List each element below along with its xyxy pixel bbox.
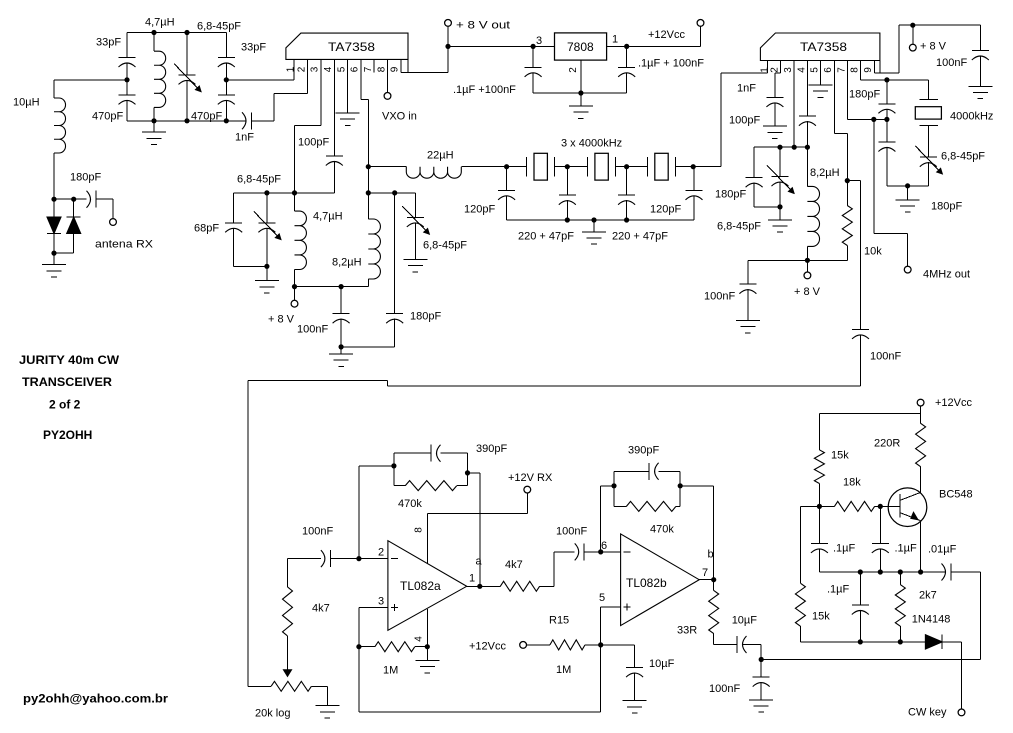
capacitor 1nF series (242, 112, 246, 129)
feedback loop b right (679, 471, 681, 506)
svg-text:470k: 470k (398, 498, 422, 510)
node tank left mid (124, 77, 129, 82)
svg-text:8: 8 (850, 67, 861, 73)
wire U2 pin4 (806, 73, 808, 116)
wire U1 pin3 (320, 73, 322, 126)
wire out a (467, 585, 480, 587)
node filter n1 (565, 164, 570, 169)
capacitor 470pF right (225, 80, 227, 95)
wire U1 pin1 (293, 73, 295, 80)
svg-text:6,8-45pF: 6,8-45pF (941, 151, 985, 163)
terminal +8V U2 (912, 25, 914, 44)
svg-text:10µH: 10µH (13, 97, 40, 109)
svg-text:180pF: 180pF (849, 89, 880, 101)
wire audio bus right (388, 385, 861, 387)
svg-text:2: 2 (568, 67, 579, 73)
wire emitter rail (819, 571, 920, 573)
svg-text:8,2µH: 8,2µH (810, 167, 840, 179)
varcap 6,8-45pF input (186, 33, 188, 75)
svg-text:R15: R15 (549, 615, 569, 627)
resistor 15k upper (818, 414, 820, 450)
resistor 33R (713, 580, 715, 591)
wire U1 tank left (234, 192, 335, 194)
capacitor 470pF left (126, 80, 128, 95)
pot wiper arrow (287, 659, 289, 670)
svg-text:8: 8 (414, 527, 425, 533)
capacitor .1uF left (818, 506, 820, 543)
wire filter bottom rail (507, 219, 694, 221)
wire 7808 out (607, 45, 627, 47)
wire tank bottom (127, 120, 247, 122)
svg-text:TA7358: TA7358 (328, 40, 375, 54)
node pin6 b (598, 549, 603, 554)
svg-text:2k7: 2k7 (919, 590, 937, 602)
wire collector (919, 467, 921, 493)
svg-text:6: 6 (350, 66, 361, 72)
svg-text:6: 6 (601, 540, 607, 552)
svg-text:1nF: 1nF (235, 132, 254, 144)
svg-text:+ 8 V: + 8 V (920, 41, 947, 53)
svg-text:7808: 7808 (567, 40, 594, 54)
crystal X2 (567, 166, 587, 168)
terminal CW key (958, 709, 965, 716)
resistor 470k b (614, 505, 626, 507)
varcap 6,8-45pF U1 right (414, 193, 416, 218)
wire U2 pin9 (874, 72, 899, 74)
svg-text:18k: 18k (843, 477, 861, 489)
terminal +12Vcc top (697, 20, 704, 27)
wire 7808 pin2 (580, 60, 582, 93)
svg-text:10k: 10k (864, 246, 882, 258)
regulator 7808 (555, 33, 607, 60)
wire U1 pin6 (360, 73, 362, 100)
svg-text:180pF: 180pF (931, 201, 962, 213)
resistor 4k7 input (287, 636, 289, 659)
svg-text:120pF: 120pF (650, 204, 681, 216)
svg-text:100pF: 100pF (298, 137, 329, 149)
wire pin5 to 10uF (601, 644, 635, 646)
svg-text:100nF: 100nF (709, 683, 740, 695)
ground tank (153, 121, 155, 132)
ground U2 pin5 (809, 84, 833, 86)
svg-text:1N4148: 1N4148 (912, 614, 951, 626)
svg-text:BC548: BC548 (939, 489, 973, 501)
inductor 8,2uH U2 (806, 147, 808, 186)
svg-text:8: 8 (376, 66, 387, 72)
svg-text:4,7µH: 4,7µH (145, 17, 175, 29)
wire pin8 node to crystal (887, 79, 928, 81)
wire to 7808 in (533, 45, 554, 47)
wire U1 pin9 (400, 72, 402, 74)
wire out b (699, 579, 714, 581)
wire U1 pin8 VXO (387, 73, 389, 93)
node filter n3 (691, 164, 696, 169)
wire U1 tank right (368, 192, 415, 194)
capacitor 180pF pin7 (886, 119, 888, 142)
wire U2 tank (754, 146, 807, 148)
svg-text:3: 3 (536, 35, 542, 47)
wire tank top (127, 32, 226, 34)
svg-text:20k log: 20k log (255, 708, 290, 720)
feedback loop a right (467, 453, 469, 485)
svg-text:TL082a: TL082a (400, 579, 441, 593)
svg-text:2 of 2: 2 of 2 (49, 398, 81, 412)
svg-text:PY2OHH: PY2OHH (43, 428, 92, 442)
svg-text:100nF: 100nF (297, 324, 328, 336)
U2 pin boxes (879, 61, 881, 74)
svg-text:VXO in: VXO in (382, 111, 417, 123)
svg-text:4k7: 4k7 (505, 559, 523, 571)
inductor 22uH (406, 167, 461, 179)
wire pot right (311, 685, 327, 687)
wire 1nF to pin2 (273, 94, 275, 121)
crystal X1 (507, 166, 527, 168)
wire to +12Vcc (627, 45, 701, 47)
svg-text:100nF: 100nF (704, 291, 735, 303)
feedback loop a left (393, 453, 395, 485)
wire 7808 gnd rail (533, 92, 627, 94)
terminal antena RX (112, 199, 114, 219)
wire bias bus (358, 647, 360, 712)
inductor 8,2uH U1 (367, 193, 369, 219)
svg-text:py2ohh@yahoo.com.br: py2ohh@yahoo.com.br (23, 692, 168, 706)
svg-text:6,8-45pF: 6,8-45pF (717, 221, 761, 233)
wire U3a pin4 (426, 609, 428, 647)
capacitor 120pF out (693, 167, 695, 191)
svg-text:10µF: 10µF (649, 658, 675, 670)
svg-text:TA7358: TA7358 (800, 40, 847, 54)
ground 100nF U2 top (968, 85, 992, 87)
svg-text:+ 8 V: + 8 V (794, 286, 821, 298)
svg-text:100nF: 100nF (556, 526, 587, 538)
capacitor 33pF left (126, 33, 128, 58)
potentiometer 20k log (271, 681, 311, 691)
wire fb to out a (468, 472, 480, 474)
svg-text:a: a (476, 556, 483, 568)
svg-text:9: 9 (390, 66, 401, 72)
terminal 4MHz out (904, 266, 911, 273)
resistor 220R (920, 414, 922, 424)
wire filter out up (693, 166, 721, 168)
wire varcap to gnd node (887, 185, 928, 187)
svg-text:100nF: 100nF (870, 351, 901, 363)
wire key rail (800, 641, 925, 643)
resistor 1M a (359, 646, 375, 648)
capacitor filter c2 (566, 167, 568, 196)
svg-text:5: 5 (599, 592, 605, 604)
wire U2 osc rail (748, 259, 847, 261)
varcap 6,8-45pF U2 tank (779, 147, 781, 176)
capacitor .01uF (921, 571, 946, 573)
terminal +12V RX (526, 493, 528, 513)
svg-text:2: 2 (296, 66, 307, 72)
diode D2 (73, 199, 75, 217)
capacitor 1nF U2 pin2 (766, 96, 783, 98)
ground 10uF bias (623, 700, 647, 702)
node tank right mid (224, 77, 229, 82)
capacitor 100nF U2 top (979, 25, 981, 50)
svg-text:1: 1 (469, 573, 475, 585)
wire sidetone long (761, 659, 981, 661)
terminal +8V U1 (294, 287, 296, 301)
svg-text:.1µF: .1µF (833, 543, 856, 555)
varcap 6,8-45pF xtal (920, 156, 937, 158)
svg-text:5: 5 (336, 66, 347, 72)
svg-text:6,8-45pF: 6,8-45pF (197, 21, 241, 33)
ground 100nF U2 osc (736, 320, 760, 322)
svg-text:4k7: 4k7 (312, 603, 330, 615)
wire base (880, 505, 899, 507)
svg-text:15k: 15k (812, 611, 830, 623)
wire 22uH to filter (461, 166, 506, 168)
svg-text:.1µF: .1µF (827, 584, 850, 596)
resistor 470k a (394, 485, 405, 487)
ground 7808 (580, 93, 582, 106)
svg-text:JURITY 40m CW: JURITY 40m CW (19, 353, 120, 367)
transistor Q1 BC548 (888, 488, 927, 527)
svg-text:390pF: 390pF (476, 443, 507, 455)
capacitor 390pF b (614, 470, 649, 472)
svg-text:180pF: 180pF (70, 172, 101, 184)
wire +8V rail U2 (899, 24, 980, 26)
svg-text:+12Vcc: +12Vcc (648, 29, 685, 41)
capacitor .1uF mid (859, 572, 861, 605)
svg-text:3: 3 (378, 596, 384, 608)
svg-text:7: 7 (363, 66, 374, 72)
capacitor 390pF a (394, 452, 431, 454)
svg-text:.1µF: .1µF (895, 543, 918, 555)
wire U2 pin7 (847, 73, 849, 119)
svg-text:3 x 4000kHz: 3 x 4000kHz (561, 138, 622, 150)
wire U1 osc rail (295, 286, 369, 288)
svg-text:4,7µH: 4,7µH (313, 211, 343, 223)
ground 100nF out (749, 699, 773, 701)
ground pot (315, 705, 339, 707)
wire U1 pin5 (347, 73, 349, 113)
wire 10k node right (847, 180, 860, 182)
wire fb to out b (680, 485, 714, 487)
capacitor 120pF in (506, 167, 508, 191)
capacitor 68pF (233, 193, 235, 223)
capacitor 180pF pin8 (886, 80, 888, 104)
svg-text:220 + 47pF: 220 + 47pF (612, 231, 668, 243)
terminal +12Vcc key (917, 399, 924, 406)
capacitor 100nF audio (852, 328, 869, 330)
U1 pin boxes (407, 59, 409, 72)
svg-text:5: 5 (809, 67, 820, 73)
wire to CW key (961, 642, 963, 709)
wire pin3 a (359, 607, 388, 609)
svg-text:+12Vcc: +12Vcc (935, 397, 972, 409)
svg-text:1nF: 1nF (737, 83, 756, 95)
capacitor .1uF 7808 out (626, 46, 628, 67)
svg-text:15k: 15k (831, 450, 849, 462)
ground filter (593, 220, 595, 232)
svg-text:4: 4 (796, 67, 807, 73)
wire pin2 to fb (358, 466, 360, 559)
ground varcap U1 right (403, 258, 427, 260)
svg-text:4000kHz: 4000kHz (950, 111, 993, 123)
svg-text:100nF: 100nF (936, 57, 967, 69)
ground U2 tank (779, 207, 781, 220)
svg-text:3: 3 (783, 67, 794, 73)
svg-text:2: 2 (378, 547, 384, 559)
svg-text:TRANSCEIVER: TRANSCEIVER (22, 375, 112, 389)
svg-text:4: 4 (414, 636, 425, 642)
wire antenna top (54, 79, 127, 81)
svg-text:470pF: 470pF (92, 111, 123, 123)
wire U2 pin2 (775, 72, 781, 74)
svg-text:7: 7 (836, 67, 847, 73)
capacitor 100nF U2 osc (747, 260, 749, 284)
diode 1N4148 (925, 635, 942, 649)
resistor 4k7 inter (500, 581, 539, 591)
svg-text:+12Vcc: +12Vcc (469, 641, 506, 653)
svg-text:33pF: 33pF (241, 42, 266, 54)
ground U3a pin4 (426, 647, 428, 661)
wire 4k7 to cap (288, 558, 321, 560)
svg-text:1: 1 (612, 34, 618, 46)
svg-text:9: 9 (863, 67, 874, 73)
capacitor 180pF antenna (87, 191, 91, 208)
svg-text:TL082b: TL082b (626, 576, 667, 590)
capacitor 10uF bias (626, 667, 643, 669)
wire pot to 4k7 (247, 380, 249, 686)
diode D1 (53, 199, 55, 217)
terminal +8V out (445, 20, 452, 27)
svg-text:8,2µH: 8,2µH (332, 256, 362, 268)
ground U1 tank (266, 266, 268, 280)
wire 8V node (448, 45, 533, 47)
wire pin5 b (601, 606, 621, 608)
svg-text:1M: 1M (383, 665, 398, 677)
wire out node (760, 645, 762, 660)
svg-text:.1µF + 100nF: .1µF + 100nF (638, 58, 704, 70)
svg-text:7: 7 (702, 567, 708, 579)
inductor L1 10uH (53, 80, 55, 98)
svg-text:120pF: 120pF (464, 204, 495, 216)
varcap 6,8-45pF U1tank (266, 193, 268, 223)
capacitor 100nF U1osc (340, 287, 342, 314)
node antenna junction (51, 197, 56, 202)
Q1 emitter arrow (911, 512, 918, 519)
capacitor filter c3 (626, 167, 628, 196)
svg-text:CW key: CW key (908, 707, 947, 719)
wire +12 key rail (819, 413, 920, 415)
capacitor 100pF U2 pin4 (799, 115, 816, 117)
wire 4k7 to cap b (540, 585, 554, 587)
svg-text:68pF: 68pF (194, 223, 219, 235)
svg-text:.01µF: .01µF (928, 544, 957, 556)
capacitor 100pF pin4 (326, 155, 343, 157)
node filter n2 (624, 164, 629, 169)
wire to 22uH (368, 166, 406, 168)
resistor R15 1M (550, 640, 585, 650)
svg-text:6,8-45pF: 6,8-45pF (423, 240, 467, 252)
svg-text:220 + 47pF: 220 + 47pF (518, 231, 574, 243)
ground U1 osc (340, 347, 342, 354)
wire diode bottoms (54, 252, 74, 254)
svg-text:6,8-45pF: 6,8-45pF (237, 174, 281, 186)
svg-text:b: b (708, 549, 714, 561)
capacitor 180pF U2 tank (753, 147, 755, 178)
wire pin6 to fb (600, 486, 602, 552)
op-amp TL082a (388, 541, 467, 631)
ground antenna (53, 253, 55, 265)
ground U2 pin2 (763, 125, 787, 127)
svg-text:220R: 220R (874, 438, 900, 450)
svg-text:1M: 1M (556, 664, 571, 676)
capacitor 100nF in a (321, 550, 325, 567)
svg-text:4: 4 (323, 66, 334, 72)
wire U2 pin3 (793, 73, 795, 147)
svg-text:2: 2 (769, 67, 780, 73)
svg-text:180pF: 180pF (715, 189, 746, 201)
ground xtal branch (907, 186, 909, 200)
svg-text:100pF: 100pF (729, 115, 760, 127)
crystal X3 (627, 166, 648, 168)
wire U2 pin8 (860, 73, 862, 80)
wire U1 pin4 upper (333, 73, 335, 157)
crystal 4000kHz (920, 99, 939, 101)
wire audio bus left (248, 379, 388, 381)
wire U3a pin8 +12VRX (426, 513, 428, 563)
svg-text:1: 1 (286, 66, 297, 72)
svg-text:antena RX: antena RX (95, 239, 154, 251)
terminal +8V U2 osc (806, 260, 808, 272)
node pin2 a (356, 556, 361, 561)
svg-text:100nF: 100nF (302, 526, 333, 538)
inductor 4.7uH input (153, 33, 155, 52)
terminal +12Vcc R15 (520, 642, 527, 649)
op-amp TL082b (621, 534, 700, 626)
svg-text:180pF: 180pF (410, 311, 441, 323)
feedback loop b left (613, 471, 615, 506)
svg-text:33pF: 33pF (96, 37, 121, 49)
inductor 4,7uH U1 (294, 193, 296, 211)
wire to 4MHz out (873, 119, 875, 233)
wire U2 pin6 (833, 73, 835, 133)
capacitor 100nF in b (575, 543, 579, 560)
op-amp U2 TA7358 body (760, 33, 880, 61)
wire emitter (919, 521, 921, 572)
capacitor 10uF out (736, 636, 738, 653)
resistor 2k7 (899, 572, 901, 585)
capacitor 100nF out (760, 660, 762, 678)
svg-text:.1µF +100nF: .1µF +100nF (453, 84, 516, 96)
ground U1 pin5 (336, 112, 360, 114)
resistor 10k (846, 181, 848, 206)
svg-text:470k: 470k (650, 524, 674, 536)
svg-text:10µF: 10µF (732, 615, 758, 627)
capacitor 33pF right (225, 33, 227, 58)
capacitor 100nF 7808 in (532, 46, 534, 67)
resistor 15k lower (800, 505, 819, 507)
svg-text:22µH: 22µH (427, 150, 454, 162)
svg-text:+12V RX: +12V RX (508, 472, 553, 484)
svg-text:3: 3 (310, 66, 321, 72)
resistor 18k (819, 505, 834, 507)
wire U2 pin5 (820, 73, 822, 85)
capacitor .1uF base (879, 506, 881, 543)
capacitor 180pF U1 (394, 193, 396, 314)
svg-text:+ 8 V: + 8 V (268, 314, 295, 326)
svg-text:390pF: 390pF (628, 445, 659, 457)
svg-text:4MHz out: 4MHz out (923, 269, 970, 281)
wire crystal to varcap (927, 126, 929, 158)
op-amp U1 TA7358 body (286, 33, 408, 59)
terminal VXO in (384, 93, 391, 100)
